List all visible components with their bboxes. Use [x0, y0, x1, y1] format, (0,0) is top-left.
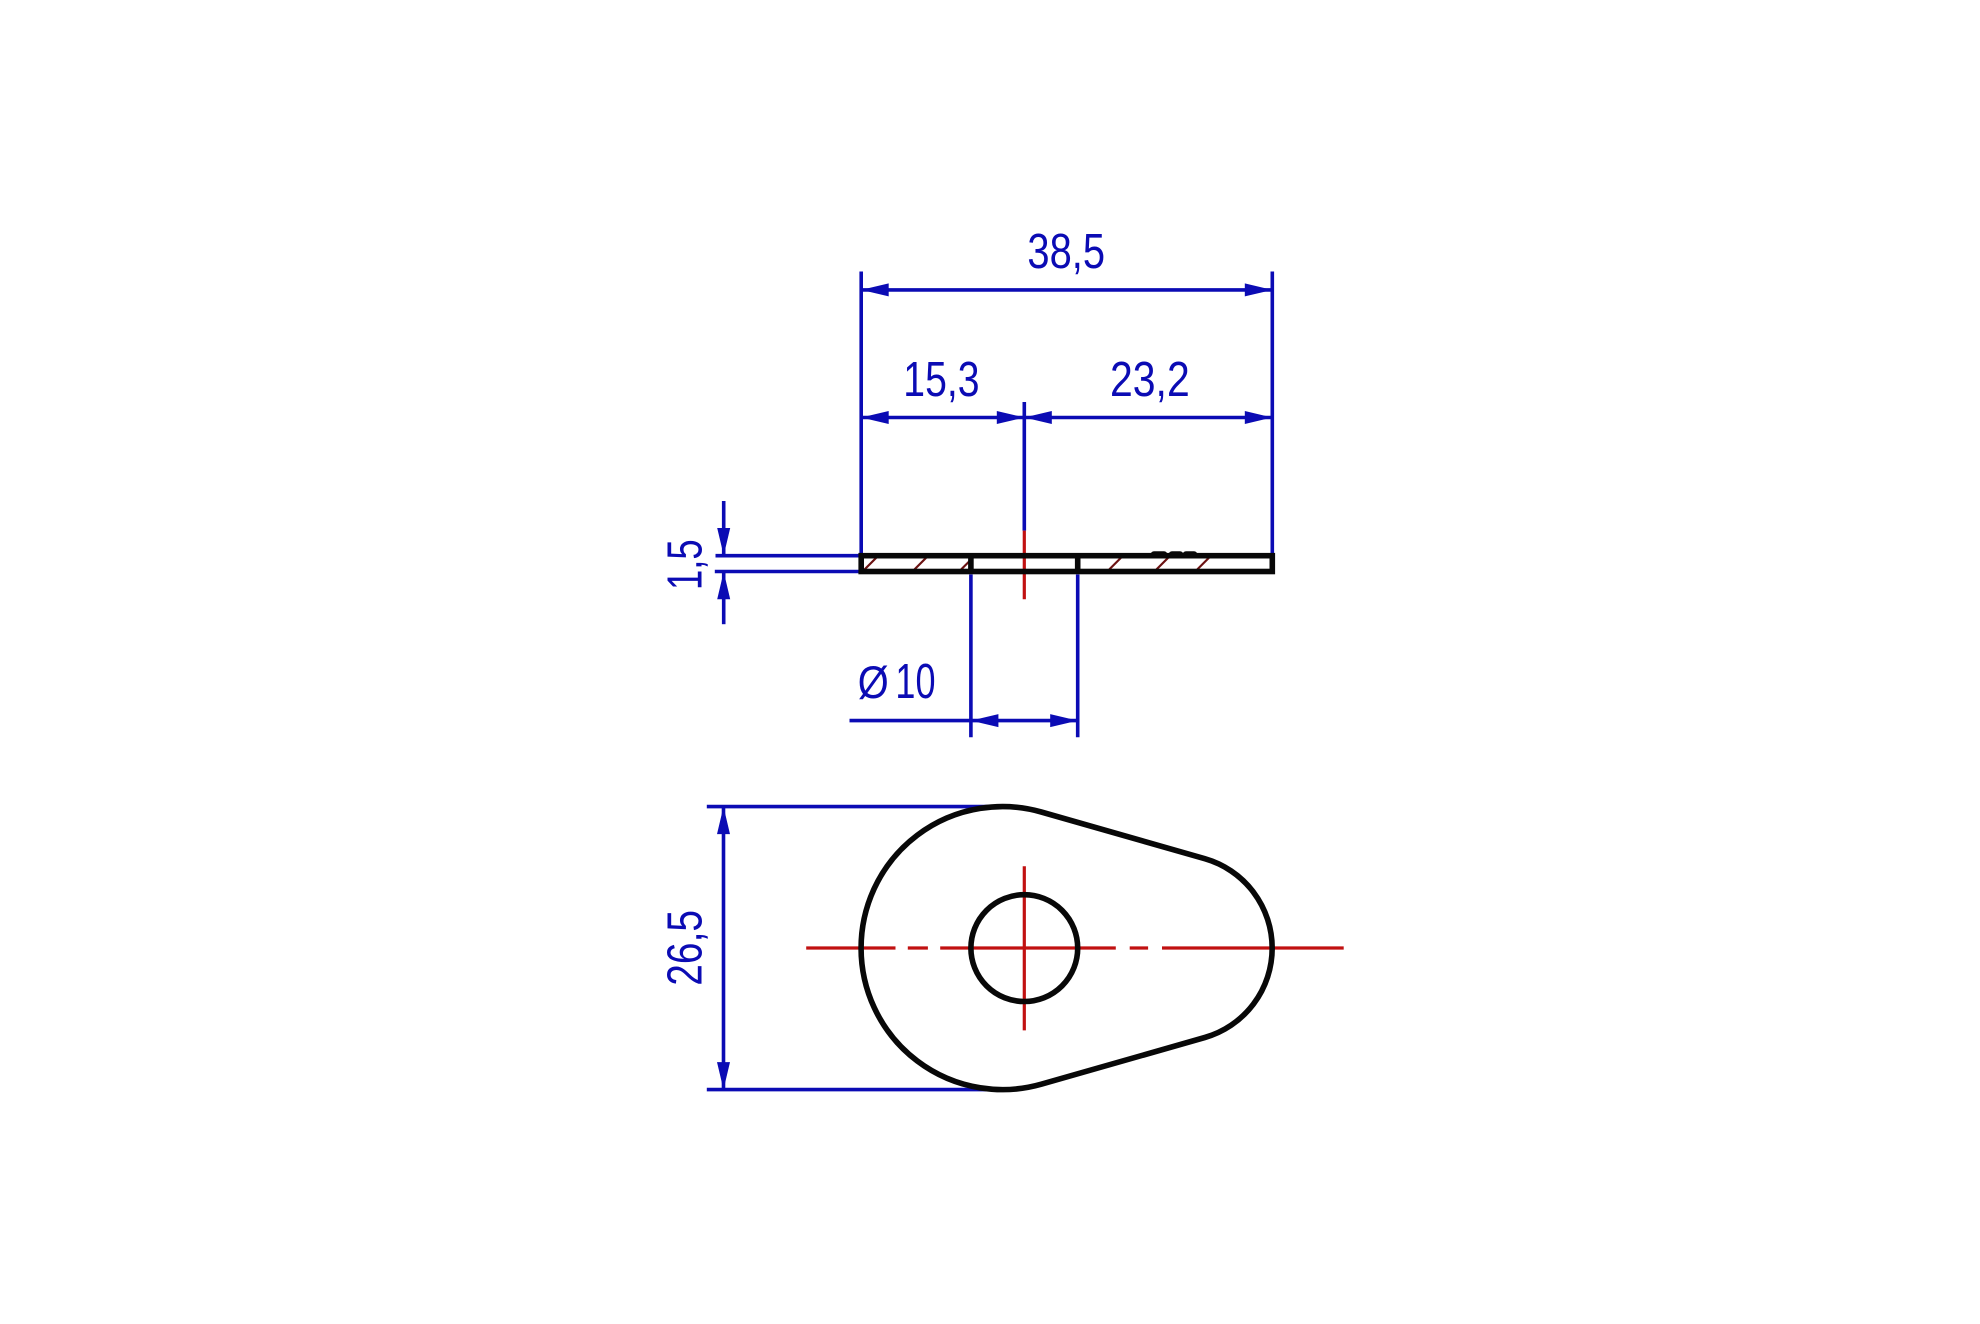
extension lines 1,5 (horizontal)	[715, 556, 861, 572]
extension line middle (hole center, upper part blue)	[1023, 402, 1027, 531]
red centre line horizontal (dashed)	[806, 946, 1343, 949]
svg-text:23,2: 23,2	[1110, 352, 1190, 407]
teardrop outline	[861, 807, 1272, 1090]
artifact blobs on top edge	[1154, 551, 1194, 558]
extension line 38,5 right	[1271, 272, 1275, 554]
hole edge right	[1075, 556, 1081, 572]
dimension line 1,5 with outside arrows	[717, 501, 730, 624]
extension line 26,5 top	[707, 805, 1003, 809]
extension lines diameter 10	[971, 575, 1078, 738]
center line red through plate	[1023, 531, 1026, 600]
svg-text:1,5: 1,5	[658, 539, 712, 590]
plate outline (section)	[861, 556, 1272, 572]
dimension line diameter 10 with leader	[850, 714, 1078, 727]
hatching left section	[865, 557, 972, 570]
dimension line 15,3	[861, 411, 1024, 424]
hole edge left	[968, 556, 974, 572]
svg-text:15,3: 15,3	[903, 353, 979, 407]
hole circle	[971, 895, 1078, 1002]
svg-text:10: 10	[895, 655, 935, 710]
svg-text:38,5: 38,5	[1027, 225, 1105, 279]
extension line 38,5 left	[859, 272, 863, 554]
extension line 26,5 bottom	[707, 1088, 1003, 1092]
svg-text:26,5: 26,5	[659, 910, 713, 986]
svg-text:Ø: Ø	[858, 659, 889, 709]
hatching right section	[1109, 557, 1210, 570]
dimension line 38,5	[861, 283, 1272, 296]
dimension line 26,5	[717, 807, 730, 1090]
red centre line vertical through hole	[1023, 866, 1026, 1030]
dimension line 23,2	[1024, 411, 1272, 424]
